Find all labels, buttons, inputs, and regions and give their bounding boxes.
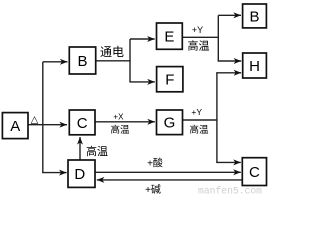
box C middle — [69, 110, 95, 135]
wire to H lower — [216, 72, 241, 74]
svg-text:B: B — [249, 8, 259, 25]
wire branch to D — [42, 172, 67, 174]
svg-text:C: C — [249, 164, 260, 181]
svg-text:+碱: +碱 — [145, 184, 161, 195]
box B left — [69, 47, 95, 74]
box C right — [242, 158, 266, 186]
svg-text:A: A — [10, 118, 20, 135]
wire to F — [129, 81, 154, 83]
svg-text:通电: 通电 — [100, 45, 124, 59]
box H — [243, 53, 267, 78]
svg-text:manfen5.com: manfen5.com — [198, 185, 262, 195]
wire EF vertical — [129, 39, 131, 82]
wire D to C acid — [95, 171, 241, 173]
svg-text:G: G — [164, 115, 176, 132]
wire right upper vertical — [217, 15, 219, 61]
svg-text:+酸: +酸 — [147, 157, 163, 170]
svg-text:高温: 高温 — [189, 124, 209, 136]
wire to H upper — [218, 60, 242, 62]
wire branch to B — [43, 61, 68, 63]
svg-text:D: D — [74, 166, 85, 183]
wire right lower vertical — [216, 73, 218, 163]
svg-text:E: E — [164, 29, 174, 46]
svg-text:B: B — [77, 53, 87, 70]
wire A to C — [28, 124, 67, 126]
box F — [157, 67, 183, 92]
svg-text:+Y: +Y — [191, 107, 202, 117]
svg-text:高温: 高温 — [188, 39, 210, 53]
wire B to EF junction — [96, 60, 131, 62]
svg-text:△: △ — [31, 114, 39, 125]
wire G to right branch — [183, 119, 218, 121]
svg-text:+Y: +Y — [192, 25, 203, 35]
wire to E — [130, 38, 155, 40]
node branch vertical on A wire — [42, 62, 44, 173]
svg-text:C: C — [77, 115, 88, 132]
box D — [68, 160, 95, 187]
svg-text:高温: 高温 — [86, 144, 108, 158]
svg-text:+X: +X — [113, 113, 124, 122]
svg-text:高温: 高温 — [110, 124, 130, 136]
box B right — [243, 4, 267, 28]
wire to bottom C — [216, 161, 241, 163]
box A — [2, 113, 28, 139]
wire C to D base — [97, 179, 243, 181]
wire D up to C — [79, 137, 81, 160]
wire to top B — [218, 14, 241, 16]
box E — [157, 23, 183, 49]
wire C to G — [95, 121, 155, 123]
wire E to right branch — [183, 36, 220, 38]
svg-text:H: H — [249, 58, 260, 75]
svg-text:F: F — [165, 72, 174, 89]
box G — [157, 110, 183, 135]
